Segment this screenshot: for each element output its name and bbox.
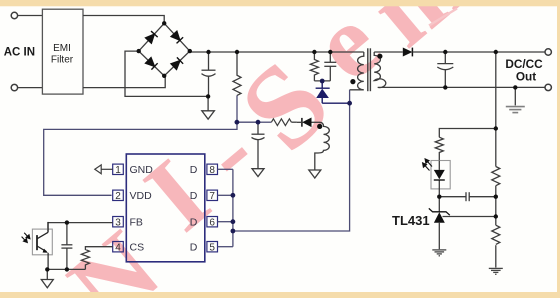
bulk capacitor C1 xyxy=(208,52,210,70)
aux winding L1 xyxy=(315,122,330,170)
svg-text:D: D xyxy=(190,190,198,202)
FB wire to opto xyxy=(41,223,112,288)
ground arrow bottom xyxy=(46,269,48,279)
VDD capacitor C4 xyxy=(252,122,265,176)
opto transistor collector xyxy=(37,232,48,239)
IC U1 body xyxy=(126,154,205,262)
border bands xyxy=(0,0,560,6)
bridge diode bottom-left xyxy=(145,57,158,70)
watermark dash xyxy=(429,9,457,26)
terminal AC top xyxy=(11,12,17,18)
svg-text:Out: Out xyxy=(516,70,536,84)
node VDD aux xyxy=(256,120,261,125)
pin 8 box xyxy=(207,164,218,174)
node R1 top xyxy=(235,50,239,54)
ground below aux winding xyxy=(309,170,321,178)
aux VDD link wires xyxy=(44,95,272,195)
svg-text:8: 8 xyxy=(209,165,215,176)
TL431 cathode wire xyxy=(438,197,440,212)
bridge diode top-left xyxy=(145,31,158,43)
svg-text:AC IN: AC IN xyxy=(4,47,35,59)
LED D3 xyxy=(434,170,445,179)
aux winding dot xyxy=(317,124,322,129)
opto transistor base bar xyxy=(36,235,38,250)
svg-text:FB: FB xyxy=(130,216,143,228)
svg-text:5: 5 xyxy=(209,242,215,253)
snubber join wire xyxy=(314,80,330,82)
svg-text:D: D xyxy=(190,241,198,253)
output diode D1 xyxy=(403,48,413,57)
LED emission arrows xyxy=(423,159,432,171)
pin 4 box xyxy=(113,242,124,252)
transformer primary winding xyxy=(350,52,364,90)
TL431 anode wire xyxy=(438,223,440,249)
svg-text:GND: GND xyxy=(130,164,154,176)
transformer secondary winding xyxy=(374,52,545,88)
divider chain vertical xyxy=(495,52,497,167)
node opto emitter rail xyxy=(45,267,49,271)
opto light arrows xyxy=(22,233,30,243)
svg-text:TL431: TL431 xyxy=(392,213,430,228)
divider resistor R5 xyxy=(492,225,500,244)
LED box xyxy=(431,161,450,189)
FB capacitor C6 xyxy=(66,223,68,245)
EMI filter box xyxy=(42,9,83,94)
node R2 top xyxy=(312,50,316,54)
wire drain bus vertical xyxy=(232,169,234,246)
TL431 ground xyxy=(432,250,446,256)
TL431 bar with zener ticks xyxy=(429,208,450,215)
wire pin5 stub xyxy=(218,246,233,248)
node FB cap bottom xyxy=(65,267,69,271)
transformer core xyxy=(367,48,369,91)
svg-text:1: 1 xyxy=(115,165,121,176)
wire plus rail xyxy=(190,51,364,53)
svg-text:4: 4 xyxy=(115,242,121,253)
pin 6 box xyxy=(207,217,218,227)
pin 3 box xyxy=(113,217,124,227)
feedback capacitor C5 xyxy=(439,196,466,198)
ground below C1 xyxy=(207,96,209,110)
bridge diode top-right xyxy=(171,31,184,43)
bridge diode bottom-right xyxy=(171,57,184,70)
opto chain top link xyxy=(439,129,496,138)
CS wire and resistor R7 xyxy=(81,247,112,270)
svg-text:EMI: EMI xyxy=(53,43,71,54)
aux resistor R3 xyxy=(271,119,291,126)
bottom rail xyxy=(47,268,85,270)
TL431 triangle xyxy=(434,212,445,223)
node bus pin6 xyxy=(231,219,236,224)
node C3 top xyxy=(443,50,447,54)
wire EMI top out to bridge top vertex xyxy=(83,16,164,24)
node bus pin7 xyxy=(231,193,236,198)
primary dot xyxy=(350,79,355,84)
wire pin7 stub xyxy=(218,194,233,196)
wire AC bottom to EMI xyxy=(18,87,43,89)
node output ground stub xyxy=(513,85,517,89)
GND pin arrow xyxy=(95,165,113,174)
wire pin6 stub xyxy=(218,221,233,223)
node C3 bottom xyxy=(443,85,447,89)
divider resistor R4 xyxy=(492,167,500,186)
wire AC top to EMI xyxy=(18,15,43,17)
node C1 bottom xyxy=(206,94,210,98)
LED wires xyxy=(438,161,440,170)
pin 5 box xyxy=(207,242,218,252)
secondary dot xyxy=(377,54,382,59)
node C1 top xyxy=(206,50,210,54)
opto transistor emitter xyxy=(37,246,47,252)
pin 1 box xyxy=(113,164,124,174)
TL431 ref wire xyxy=(443,216,496,218)
node snubber clamp xyxy=(320,79,325,84)
wire secondary top to output diode xyxy=(374,51,403,53)
node bridge right vertex xyxy=(188,49,192,53)
wire aux cap node to aux resistor xyxy=(258,121,271,123)
svg-text:D: D xyxy=(190,164,198,176)
node C5 right xyxy=(494,195,498,199)
VDD trace to pin2 xyxy=(44,95,237,195)
svg-text:CS: CS xyxy=(130,241,145,253)
opto emitter arrow xyxy=(43,249,48,253)
wire emitter to rail xyxy=(47,253,49,270)
node bridge left vertex xyxy=(137,49,141,53)
optocoupler U3 xyxy=(32,229,52,255)
node opto chain tap xyxy=(494,126,498,130)
divider ground xyxy=(489,268,503,274)
node TL431 ref xyxy=(494,214,498,218)
bridge rectifier diamond xyxy=(139,23,190,76)
svg-text:Filter: Filter xyxy=(51,55,74,66)
wire output diode to terminal xyxy=(412,51,545,53)
ground stub on output return xyxy=(514,87,516,105)
snubber capacitor C2 xyxy=(329,52,331,62)
node FB cap top xyxy=(65,220,69,224)
output capacitor C3 xyxy=(444,52,446,64)
node bridge bottom vertex xyxy=(162,74,166,78)
node C2 top xyxy=(328,50,332,54)
wire EMI bottom out to bridge bottom vertex xyxy=(83,76,165,88)
node divider top xyxy=(494,50,498,54)
pin 7 box xyxy=(207,190,218,200)
drain wire from primary bottom to IC bus xyxy=(233,90,350,231)
svg-text:3: 3 xyxy=(115,217,121,228)
startup resistor R1 xyxy=(233,52,241,95)
node bus drain xyxy=(231,229,236,234)
snubber resistor R2 xyxy=(310,52,318,81)
opto series resistor R6 xyxy=(435,137,443,160)
svg-text:6: 6 xyxy=(209,217,215,228)
svg-text:D: D xyxy=(190,216,198,228)
svg-text:2: 2 xyxy=(115,191,121,202)
wire pin8 stub xyxy=(218,168,233,170)
wire VDD node to aux cap node xyxy=(237,121,258,123)
terminal DC bottom xyxy=(545,84,551,90)
node VDD startup xyxy=(235,120,240,125)
wire bridge left vertex to minus rail xyxy=(125,51,208,96)
node TL431 cathode xyxy=(437,195,441,199)
wire collector to FB xyxy=(47,222,49,232)
svg-text:VDD: VDD xyxy=(130,190,153,202)
clamp diode D2 xyxy=(316,81,350,103)
watermark UNI-Sem xyxy=(47,0,489,298)
aux diode D5 xyxy=(301,118,303,127)
terminal DC top xyxy=(545,49,551,55)
node bridge top vertex xyxy=(162,21,166,25)
earth ground output xyxy=(506,107,525,113)
terminal AC bottom xyxy=(11,84,17,90)
pin 2 box xyxy=(113,190,124,200)
svg-text:7: 7 xyxy=(209,191,215,202)
node drain clamp join xyxy=(347,101,352,106)
